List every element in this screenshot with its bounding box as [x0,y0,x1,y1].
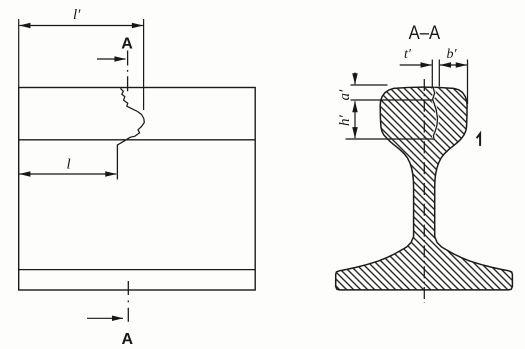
section arrow top [97,58,126,60]
reference line head bottom (h' bottom) [346,138,435,140]
crack in rail head [433,88,438,139]
svg-text:h′: h′ [337,115,353,127]
foot top line (inner horizontal line 2) [19,269,256,271]
dimension l' extension line right [143,19,145,110]
dimension line l' [19,25,142,27]
svg-text:a′: a′ [337,89,353,101]
section arrow bottom [87,317,123,319]
head bottom line (inner horizontal line 1) [19,139,256,141]
reference line head top (for a') [351,84,388,86]
svg-text:l: l [67,157,71,173]
extension line crack right (b' left) [438,60,440,87]
dimension line b' [440,64,467,66]
svg-text:A: A [122,331,134,348]
extension line crack left (t') [431,60,433,89]
section line A bottom (dash-dot) [127,281,129,324]
crack in side view (lower step + vertical) [117,140,126,180]
rail cross-section outline with hatching [336,87,513,290]
dimension line l [19,173,116,175]
centerline of section (dash-dot vertical) [423,79,425,303]
label 1 (crack callout) [477,134,481,146]
svg-text:t′: t′ [404,47,412,62]
svg-text:l′: l′ [73,7,81,23]
crack in side view (upper jagged part) [120,88,144,139]
svg-text:A: A [121,35,133,52]
dimension h' (arrows both ends) [354,101,356,138]
section line A top (dash-dot) [127,51,129,95]
extension line head right edge (b' right) [467,60,469,105]
crack in rail head (white clearance) [433,88,438,139]
svg-text:b′: b′ [447,47,458,62]
svg-text:A–A: A–A [409,22,441,44]
dimension l' extension line left [18,19,20,88]
reference line crack depth (a' bottom / into head) [351,99,433,101]
dimension a' (arrow from above) [354,73,356,85]
rail side view rectangle [19,88,256,291]
dimension line t' (arrow to crack) [400,64,432,66]
